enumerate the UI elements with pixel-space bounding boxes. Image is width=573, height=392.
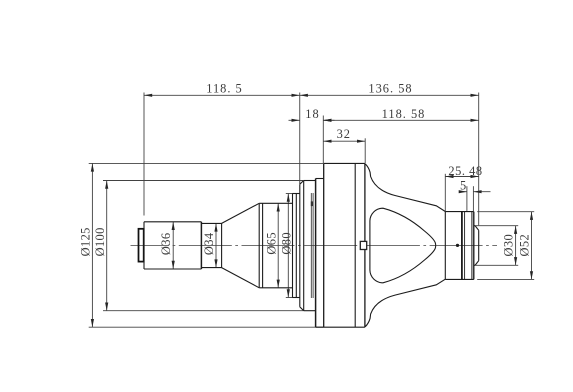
svg-text:5: 5 — [460, 179, 467, 193]
svg-text:Ø52: Ø52 — [517, 234, 531, 257]
svg-text:25. 48: 25. 48 — [448, 164, 482, 178]
svg-text:Ø100: Ø100 — [93, 227, 107, 256]
svg-text:18: 18 — [305, 107, 319, 121]
svg-text:136. 58: 136. 58 — [368, 82, 412, 96]
svg-text:Ø80: Ø80 — [279, 232, 293, 255]
svg-text:Ø65: Ø65 — [264, 232, 278, 255]
svg-text:32: 32 — [337, 127, 351, 141]
svg-text:Ø36: Ø36 — [159, 233, 173, 256]
svg-text:Ø30: Ø30 — [501, 234, 515, 257]
svg-text:118. 58: 118. 58 — [382, 107, 426, 121]
svg-text:Ø34: Ø34 — [202, 233, 216, 256]
svg-text:Ø125: Ø125 — [79, 227, 93, 256]
svg-text:118. 5: 118. 5 — [206, 82, 243, 96]
